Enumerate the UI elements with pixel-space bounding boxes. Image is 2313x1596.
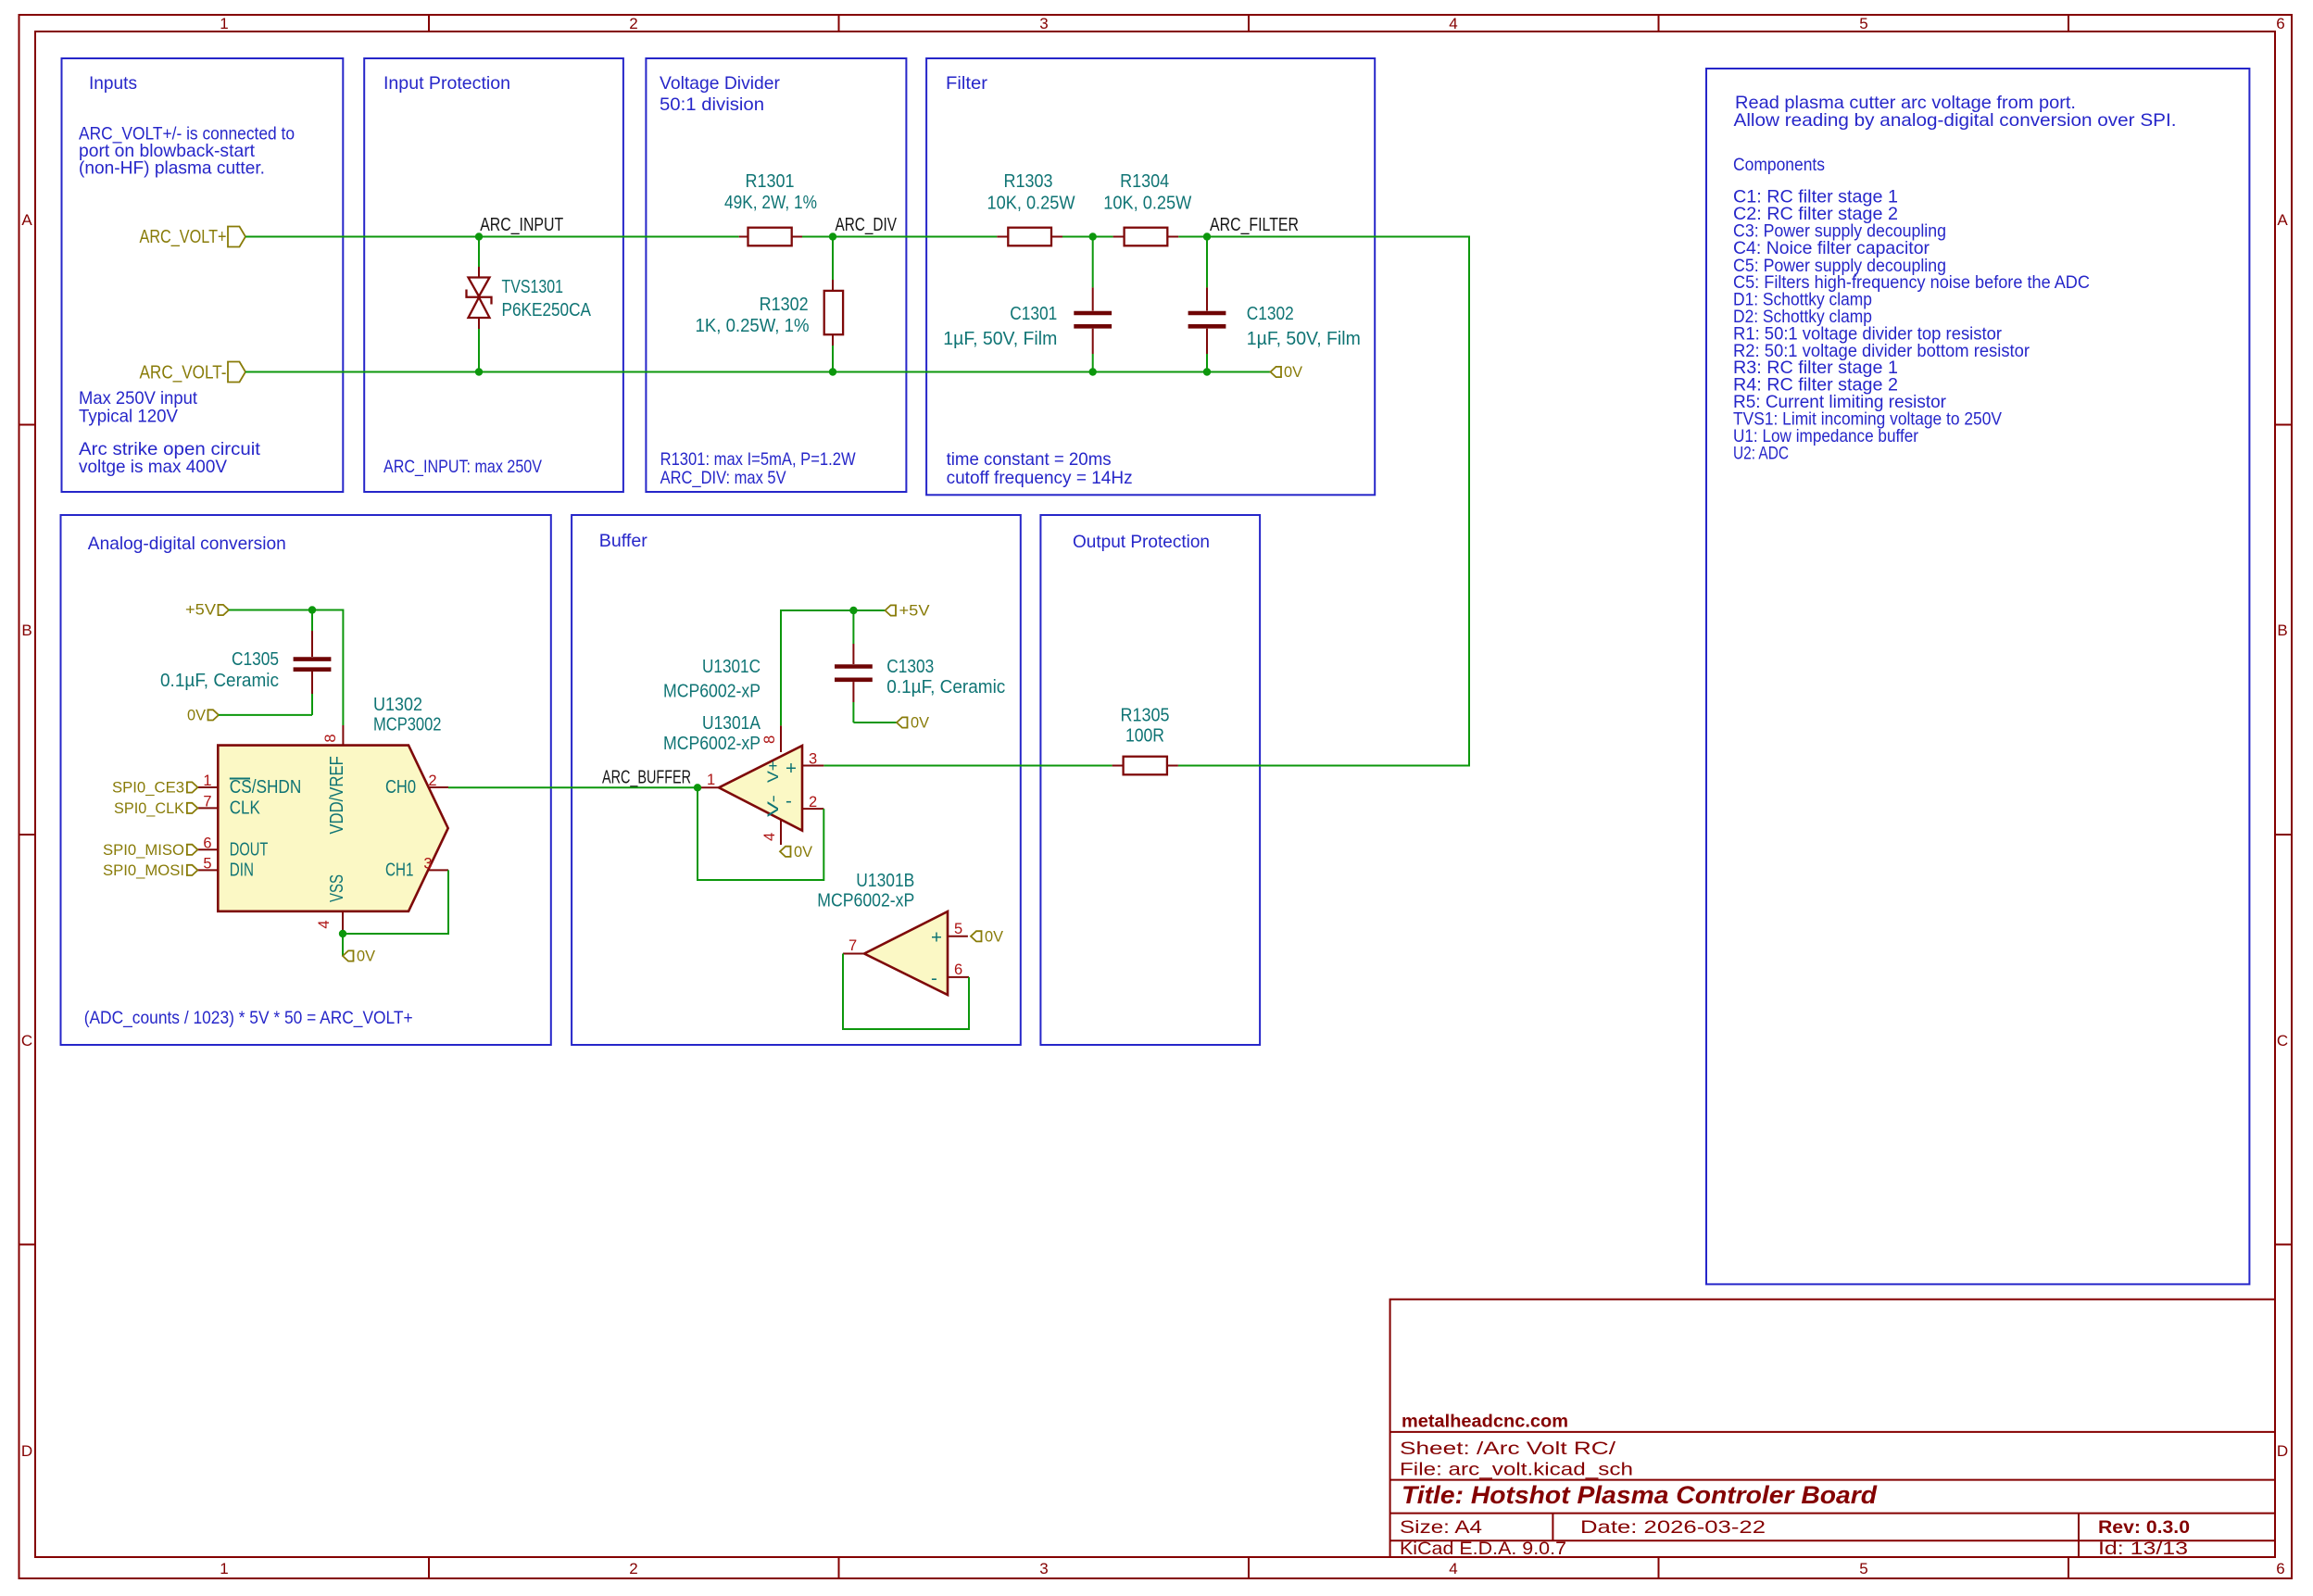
- power label +5V ADC: [185, 602, 229, 619]
- node ARC_BUFFER junction: [694, 784, 701, 791]
- power label 0V filter: [1271, 364, 1303, 381]
- power label +5V buffer: [886, 603, 930, 620]
- wire R1301 to R1303: [802, 236, 997, 238]
- node ARC_DIV junction: [829, 232, 836, 240]
- svg-text:MCP6002-xP: MCP6002-xP: [817, 890, 914, 911]
- svg-text:0V: 0V: [911, 715, 929, 732]
- svg-text:Typical 120V: Typical 120V: [79, 407, 178, 427]
- svg-text:SPI0_CLK: SPI0_CLK: [114, 800, 184, 817]
- svg-text:Size: A4: Size: A4: [1400, 1517, 1482, 1538]
- svg-text:U1301A: U1301A: [702, 712, 761, 734]
- node C1301 bottom junction: [1089, 368, 1097, 375]
- hierarchical label ARC_VOLT+: [140, 226, 246, 247]
- svg-text:R1301: R1301: [746, 170, 795, 192]
- power label 0V ADC: [187, 707, 219, 723]
- IC U1302 MCP3002: [197, 694, 448, 934]
- svg-text:C: C: [21, 1032, 32, 1049]
- svg-text:R1301: max I=5mA, P=1.2W: R1301: max I=5mA, P=1.2W: [660, 449, 857, 470]
- svg-text:ARC_FILTER: ARC_FILTER: [1210, 214, 1299, 235]
- svg-text:ARC_INPUT: max 250V: ARC_INPUT: max 250V: [383, 457, 542, 477]
- svg-text:4: 4: [1449, 15, 1457, 32]
- svg-text:P6KE250CA: P6KE250CA: [502, 299, 592, 320]
- svg-text:ARC_DIV: max 5V: ARC_DIV: max 5V: [660, 468, 786, 488]
- section box Analog-digital conversion: [61, 515, 551, 1045]
- svg-text:MCP6002-xP: MCP6002-xP: [663, 733, 761, 754]
- svg-text:(non-HF) plasma cutter.: (non-HF) plasma cutter.: [79, 158, 265, 179]
- svg-text:C1301: C1301: [1010, 303, 1057, 324]
- svg-text:Id: 13/13: Id: 13/13: [2098, 1539, 2188, 1559]
- svg-text:Components: Components: [1733, 155, 1825, 175]
- svg-text:3: 3: [809, 751, 817, 768]
- svg-text:0V: 0V: [1284, 364, 1302, 381]
- wire ARC_VOLT- rail: [245, 371, 1271, 373]
- section box Output Protection: [1040, 515, 1260, 1045]
- svg-text:7: 7: [849, 937, 857, 954]
- wire +5V rail buffer: [781, 610, 886, 725]
- wire C1303 to 0V: [853, 722, 897, 723]
- svg-text:0V: 0V: [985, 928, 1003, 945]
- svg-text:-: -: [786, 790, 792, 811]
- resistor R1305: [1113, 705, 1178, 775]
- title block: [1390, 1300, 2275, 1559]
- svg-text:Buffer: Buffer: [599, 531, 647, 551]
- svg-text:7: 7: [203, 793, 211, 810]
- op-amp U1301B: [817, 870, 969, 995]
- svg-text:U1302: U1302: [373, 694, 422, 715]
- svg-text:+: +: [931, 927, 942, 949]
- svg-text:2: 2: [629, 1560, 637, 1577]
- svg-text:1K, 0.25W, 1%: 1K, 0.25W, 1%: [696, 315, 810, 336]
- svg-text:0V: 0V: [187, 707, 206, 723]
- svg-text:6: 6: [203, 835, 211, 851]
- hierarchical label SPI0_CLK: [114, 800, 197, 817]
- capacitor C1301: [943, 237, 1112, 372]
- svg-text:3: 3: [1039, 15, 1048, 32]
- svg-text:0.1µF, Ceramic: 0.1µF, Ceramic: [160, 670, 279, 691]
- svg-text:R1303: R1303: [1004, 170, 1053, 192]
- svg-text:voltge is max 400V: voltge is max 400V: [79, 457, 227, 477]
- svg-text:VSS: VSS: [326, 874, 347, 902]
- svg-text:1: 1: [220, 1560, 228, 1577]
- svg-text:0V: 0V: [794, 844, 812, 861]
- resistor R1302: [696, 280, 844, 346]
- svg-text:V-: V-: [765, 795, 782, 817]
- svg-text:ARC_VOLT-: ARC_VOLT-: [140, 362, 227, 383]
- svg-text:4: 4: [316, 920, 333, 928]
- svg-text:MCP3002: MCP3002: [373, 714, 442, 735]
- wire U1301A feedback: [698, 787, 823, 880]
- svg-text:CH0: CH0: [385, 776, 416, 798]
- svg-text:cutoff frequency = 14Hz: cutoff frequency = 14Hz: [947, 468, 1133, 488]
- svg-text:SPI0_CE3: SPI0_CE3: [112, 780, 184, 797]
- svg-text:2: 2: [428, 773, 436, 789]
- svg-text:49K, 2W, 1%: 49K, 2W, 1%: [724, 192, 817, 213]
- wire 0V to C1305: [219, 714, 312, 716]
- svg-text:B: B: [21, 622, 31, 639]
- svg-text:Analog-digital conversion: Analog-digital conversion: [88, 534, 286, 554]
- svg-text:1µF, 50V, Film: 1µF, 50V, Film: [1247, 328, 1361, 349]
- svg-text:CLK: CLK: [230, 797, 260, 818]
- hierarchical label SPI0_MISO: [103, 842, 197, 859]
- svg-text:metalheadcnc.com: metalheadcnc.com: [1402, 1412, 1568, 1432]
- svg-text:SPI0_MOSI: SPI0_MOSI: [103, 862, 184, 879]
- wire ARC_DIV to R1302: [832, 237, 834, 281]
- svg-text:1: 1: [203, 773, 211, 789]
- op-amp U1301A: [663, 656, 823, 845]
- svg-text:Date: 2026-03-22: Date: 2026-03-22: [1580, 1517, 1766, 1538]
- svg-text:U2: ADC: U2: ADC: [1733, 444, 1789, 464]
- svg-text:R1304: R1304: [1120, 170, 1169, 192]
- svg-text:TVS1301: TVS1301: [502, 276, 564, 297]
- svg-text:5: 5: [203, 855, 211, 872]
- svg-text:1: 1: [220, 15, 228, 32]
- svg-text:C1303: C1303: [886, 656, 934, 677]
- svg-text:5: 5: [1859, 1560, 1867, 1577]
- svg-text:A: A: [2277, 211, 2288, 229]
- wire ARC_FILTER right and down to R1305: [1178, 237, 1469, 766]
- svg-text:ARC_VOLT+: ARC_VOLT+: [140, 226, 227, 247]
- svg-text:Inputs: Inputs: [89, 73, 137, 94]
- svg-text:Title: Hotshot Plasma Controle: Title: Hotshot Plasma Controler Board: [1402, 1481, 1878, 1509]
- pin stubs U1302: [197, 786, 218, 788]
- svg-text:Input Protection: Input Protection: [383, 73, 510, 94]
- svg-text:SPI0_MISO: SPI0_MISO: [103, 842, 184, 859]
- resistor R1301: [724, 170, 817, 245]
- node C1301 top junction: [1089, 232, 1097, 240]
- svg-text:time constant = 20ms: time constant = 20ms: [947, 449, 1112, 470]
- node C1302 bottom junction: [1203, 368, 1211, 375]
- svg-text:V+: V+: [765, 760, 782, 783]
- svg-text:R1302: R1302: [760, 294, 809, 315]
- svg-text:(ADC_counts / 1023) * 5V * 50: (ADC_counts / 1023) * 5V * 50 = ARC_VOLT…: [84, 1008, 413, 1028]
- svg-text:1µF, 50V, Film: 1µF, 50V, Film: [943, 328, 1057, 349]
- section box Input Protection: [364, 58, 623, 492]
- capacitor C1303: [835, 610, 1005, 723]
- svg-text:D: D: [21, 1442, 32, 1460]
- wire R1304 to ARC_FILTER: [1178, 236, 1207, 238]
- TVS diode TVS1301: [467, 267, 592, 329]
- svg-text:1: 1: [707, 772, 715, 788]
- svg-text:Voltage Divider: Voltage Divider: [660, 73, 780, 94]
- svg-text:10K, 0.25W: 10K, 0.25W: [987, 193, 1076, 214]
- hierarchical label SPI0_CE3: [112, 780, 197, 797]
- svg-text:Allow reading by analog-digita: Allow reading by analog-digital conversi…: [1734, 110, 2177, 131]
- svg-text:-: -: [931, 968, 937, 989]
- node ARC_FILTER junction: [1203, 232, 1211, 240]
- svg-text:0.1µF, Ceramic: 0.1µF, Ceramic: [886, 676, 1005, 697]
- svg-text:4: 4: [1449, 1560, 1457, 1577]
- svg-text:ARC_BUFFER: ARC_BUFFER: [602, 767, 691, 788]
- resistor R1304: [1103, 170, 1192, 245]
- node C1303 top junction: [849, 607, 857, 614]
- svg-text:Sheet: /Arc Volt RC/: Sheet: /Arc Volt RC/: [1400, 1439, 1616, 1459]
- svg-text:DIN: DIN: [230, 859, 254, 880]
- svg-text:CH1: CH1: [385, 859, 413, 880]
- wire +5V ADC rail: [229, 610, 343, 726]
- svg-text:3: 3: [1039, 1560, 1048, 1577]
- node C1305 top junction: [308, 606, 316, 613]
- svg-text:C: C: [2277, 1032, 2288, 1049]
- wire ARC_VOLT+ rail: [245, 236, 739, 238]
- section box Filter: [926, 58, 1375, 495]
- node TVS bottom junction: [475, 368, 483, 375]
- node VSS junction: [339, 930, 346, 937]
- svg-text:3: 3: [423, 855, 432, 872]
- svg-text:D: D: [2277, 1442, 2288, 1460]
- node ARC_INPUT junction: [475, 232, 483, 240]
- wire R1303 to R1304: [1062, 236, 1113, 238]
- svg-text:8: 8: [761, 735, 778, 744]
- wire CH1 loop to VSS: [343, 870, 448, 934]
- svg-text:A: A: [21, 211, 32, 229]
- svg-text:+5V: +5V: [899, 603, 930, 620]
- svg-text:KiCad E.D.A. 9.0.7: KiCad E.D.A. 9.0.7: [1400, 1539, 1566, 1559]
- svg-text:U1301C: U1301C: [702, 656, 761, 677]
- svg-text:5: 5: [1859, 15, 1867, 32]
- section box Inputs: [62, 58, 344, 492]
- svg-text:Filter: Filter: [946, 73, 988, 94]
- svg-text:4: 4: [761, 833, 778, 841]
- svg-text:10K, 0.25W: 10K, 0.25W: [1103, 193, 1192, 214]
- capacitor C1305: [160, 610, 331, 715]
- notes box: [1706, 69, 2249, 1284]
- wire R1302 bottom: [832, 346, 834, 372]
- svg-text:8: 8: [322, 734, 339, 742]
- power label 0V C1303: [897, 715, 929, 732]
- section box Voltage Divider: [646, 58, 906, 492]
- svg-text:DOUT: DOUT: [230, 838, 269, 860]
- capacitor C1302: [1188, 237, 1361, 372]
- svg-text:B: B: [2277, 622, 2287, 639]
- svg-text:0V: 0V: [357, 949, 375, 965]
- svg-text:+: +: [786, 758, 797, 779]
- wire R1305 to U1301A pin3: [823, 765, 1112, 767]
- svg-text:MCP6002-xP: MCP6002-xP: [663, 681, 761, 702]
- wire U1301B feedback: [843, 954, 969, 1030]
- wire VSS to 0V: [342, 934, 344, 956]
- svg-text:6: 6: [954, 961, 962, 978]
- svg-text:2: 2: [629, 15, 637, 32]
- svg-text:File: arc_volt.kicad_sch: File: arc_volt.kicad_sch: [1400, 1460, 1633, 1480]
- svg-text:6: 6: [2276, 1560, 2284, 1577]
- svg-text:VDD/VREF: VDD/VREF: [326, 756, 347, 835]
- svg-text:+5V: +5V: [185, 602, 216, 619]
- svg-text:5: 5: [954, 921, 962, 937]
- svg-text:U1301B: U1301B: [856, 870, 914, 891]
- svg-text:ARC_INPUT: ARC_INPUT: [480, 214, 563, 235]
- svg-text:R1305: R1305: [1121, 705, 1170, 726]
- power label 0V U1301A pin4: [780, 844, 812, 861]
- node R1302 bottom junction: [829, 368, 836, 375]
- resistor R1303: [987, 170, 1076, 245]
- wire TVS bottom: [478, 329, 480, 372]
- svg-text:C1305: C1305: [232, 648, 279, 670]
- svg-text:6: 6: [2276, 15, 2284, 32]
- svg-text:C1302: C1302: [1247, 303, 1294, 324]
- power label 0V U1301B pin5: [971, 928, 1003, 945]
- svg-text:ARC_DIV: ARC_DIV: [836, 214, 898, 235]
- svg-text:2: 2: [809, 794, 817, 811]
- svg-text:100R: 100R: [1125, 725, 1164, 747]
- svg-text:50:1 division: 50:1 division: [660, 94, 764, 115]
- hierarchical label SPI0_MOSI: [103, 862, 197, 879]
- power label 0V U1302: [343, 949, 375, 965]
- hierarchical label ARC_VOLT-: [140, 362, 246, 383]
- section box Buffer: [572, 515, 1021, 1045]
- svg-text:Rev: 0.3.0: Rev: 0.3.0: [2098, 1517, 2190, 1538]
- wire TVS top: [478, 237, 480, 268]
- svg-text:Output Protection: Output Protection: [1073, 532, 1210, 552]
- wire CH0 to ARC_BUFFER: [448, 786, 698, 788]
